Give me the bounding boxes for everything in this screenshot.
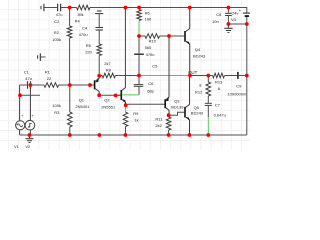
svg-text:R3: R3 xyxy=(54,110,60,115)
svg-text:560: 560 xyxy=(145,45,152,50)
transistor Q5 BD243 xyxy=(185,76,190,136)
capacitor C9 xyxy=(237,72,239,79)
svg-text:Q5: Q5 xyxy=(194,105,200,110)
wire R5 to node xyxy=(98,56,100,76)
capacitor C4 xyxy=(96,28,104,31)
transistor Q2 2N5551 xyxy=(121,8,125,106)
wire Q2 emitter to Q3 base xyxy=(126,103,165,106)
svg-text:R11: R11 xyxy=(155,117,163,122)
svg-text:C2: C2 xyxy=(54,19,60,24)
svg-text:24v: 24v xyxy=(232,11,238,16)
transistor Q1 2N5401 xyxy=(95,76,100,95)
svg-text:Q3: Q3 xyxy=(174,99,180,104)
resistor R1 xyxy=(44,83,59,88)
wire R13 to C9 xyxy=(225,75,238,77)
wire Q1 collector line to Q2 xyxy=(99,94,121,96)
svg-text:R5: R5 xyxy=(86,43,92,48)
resistor R11 xyxy=(166,117,171,130)
wire green Q2 emitter xyxy=(125,105,127,112)
svg-text:V2: V2 xyxy=(25,144,31,149)
input terminal T2 xyxy=(38,53,46,61)
capacitor C1 xyxy=(28,81,31,89)
svg-text:R12: R12 xyxy=(195,90,203,95)
wire top rail xyxy=(44,7,246,9)
resistor R8 xyxy=(102,73,116,78)
capacitor C6 xyxy=(138,76,140,85)
ground (C8) xyxy=(224,24,232,33)
resistor R2 xyxy=(67,26,72,38)
voltage source V1 xyxy=(16,85,25,135)
wire R3 column xyxy=(69,85,71,135)
svg-text:2N5551: 2N5551 xyxy=(101,104,116,109)
resistor R6 xyxy=(138,8,140,10)
resistor R4 xyxy=(77,5,91,10)
wire C3 to C4 xyxy=(98,14,100,28)
capacitor C7 xyxy=(207,96,209,103)
wire stub node N1 xyxy=(20,94,40,96)
svg-text:V1: V1 xyxy=(14,144,20,149)
resistor R12 xyxy=(207,76,209,83)
wire green OUT line xyxy=(139,75,190,77)
wire green C6 to Q2 base xyxy=(122,94,139,96)
wire C8 to V3 xyxy=(228,23,246,25)
svg-text:39k: 39k xyxy=(77,12,83,17)
svg-text:470u: 470u xyxy=(79,32,88,37)
svg-text:BD139: BD139 xyxy=(171,104,184,109)
svg-text:C9: C9 xyxy=(236,84,242,89)
wire right edge xyxy=(246,24,248,135)
svg-text:220: 220 xyxy=(85,50,92,55)
svg-text:R4: R4 xyxy=(75,19,81,24)
wire R8 stubs xyxy=(99,75,139,77)
wire input line y85 xyxy=(20,84,94,86)
svg-text:C1: C1 xyxy=(24,70,30,75)
voltage source V2 xyxy=(25,85,35,135)
svg-text:C8: C8 xyxy=(216,12,222,17)
svg-text:R1: R1 xyxy=(45,70,51,75)
svg-text:47u: 47u xyxy=(25,76,32,81)
wire base into Q2 xyxy=(116,94,121,96)
ground (sources) xyxy=(26,135,34,143)
svg-text:R10: R10 xyxy=(149,39,157,44)
transistor Q3 BD139 xyxy=(165,36,169,115)
transistor Q4 BD243 xyxy=(169,8,190,76)
svg-text:0.047u: 0.047u xyxy=(214,112,226,117)
svg-text:R9: R9 xyxy=(133,111,139,116)
wire C4 to R5 xyxy=(98,30,100,44)
svg-text:100k: 100k xyxy=(52,103,61,108)
svg-text:R6: R6 xyxy=(145,11,151,16)
svg-text:100k: 100k xyxy=(52,37,61,42)
svg-text:C5: C5 xyxy=(152,64,158,69)
capacitor C8 xyxy=(227,8,229,13)
svg-text:R2: R2 xyxy=(54,30,60,35)
svg-text:10n: 10n xyxy=(212,19,219,24)
svg-text:C4: C4 xyxy=(82,26,88,31)
svg-text:1000000m: 1000000m xyxy=(227,92,247,97)
resistor R10 xyxy=(139,35,169,37)
svg-text:BD243: BD243 xyxy=(193,54,206,59)
wire Q1 base to Q2 base xyxy=(80,84,94,86)
svg-text:C6: C6 xyxy=(148,81,154,86)
resistor R3 xyxy=(68,112,73,127)
wire green R6 bottom xyxy=(138,21,140,37)
wire green C7 to rail xyxy=(207,106,209,117)
wire Q3 to Q5 base xyxy=(169,112,185,115)
wire OUT to R12 node to R13 xyxy=(190,75,213,77)
resistor R5 xyxy=(97,44,102,56)
resistor R9 xyxy=(123,112,128,126)
svg-text:22: 22 xyxy=(47,76,52,81)
svg-text:Q2: Q2 xyxy=(104,97,110,102)
battery V3 24v xyxy=(246,8,248,13)
svg-text:2k2: 2k2 xyxy=(155,123,162,128)
svg-text:68p: 68p xyxy=(147,89,154,94)
svg-text:V3: V3 xyxy=(231,17,237,22)
svg-text:1k: 1k xyxy=(134,118,138,123)
svg-text:Q4: Q4 xyxy=(195,47,201,52)
wire bottom rail xyxy=(20,134,247,136)
capacitor C2 xyxy=(58,4,61,12)
input terminal T1 xyxy=(41,4,44,11)
svg-text:Q1: Q1 xyxy=(79,97,85,102)
svg-text:R8: R8 xyxy=(106,68,112,73)
svg-text:470u: 470u xyxy=(146,52,155,57)
capacitor C3 xyxy=(95,11,103,14)
svg-text:BD243: BD243 xyxy=(191,110,204,115)
capacitor C5 xyxy=(138,36,140,53)
resistor R13 xyxy=(213,73,225,78)
svg-text:100: 100 xyxy=(145,17,152,22)
svg-text:2k7: 2k7 xyxy=(104,61,111,66)
wire R2 column xyxy=(69,8,71,86)
svg-text:47u: 47u xyxy=(56,12,63,17)
svg-text:C7: C7 xyxy=(215,103,221,108)
svg-text:2N5401: 2N5401 xyxy=(75,104,90,109)
svg-text:R13: R13 xyxy=(215,80,223,85)
